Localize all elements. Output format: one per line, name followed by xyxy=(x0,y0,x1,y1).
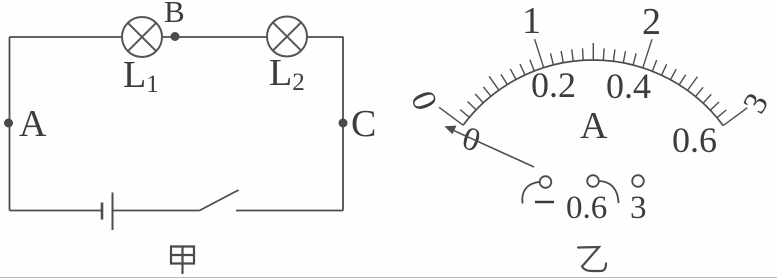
terminal 3 xyxy=(632,175,644,187)
svg-text:3: 3 xyxy=(737,87,776,119)
caption jia (甲) xyxy=(171,247,194,274)
svg-text:A: A xyxy=(580,105,608,147)
terminal negative hook xyxy=(522,182,539,204)
svg-text:1: 1 xyxy=(522,0,541,42)
terminal 0.6 xyxy=(587,175,599,187)
caption yi (乙) xyxy=(578,247,606,271)
terminal 0.6 hook xyxy=(599,181,619,203)
svg-text:0: 0 xyxy=(403,86,444,116)
lamp L1 xyxy=(122,17,162,57)
svg-text:2: 2 xyxy=(642,1,661,43)
ammeter tick marks xyxy=(439,39,747,126)
svg-text:A: A xyxy=(19,103,47,145)
wire right side of loop xyxy=(342,37,344,211)
terminal negative label xyxy=(535,201,554,204)
terminal negative xyxy=(540,176,552,188)
svg-text:3: 3 xyxy=(630,190,647,226)
node B xyxy=(171,32,180,41)
svg-text:B: B xyxy=(164,0,185,29)
svg-text:0: 0 xyxy=(458,120,485,159)
wire bottom left segment xyxy=(10,210,103,212)
switch S1 xyxy=(200,190,239,211)
lamp L2 xyxy=(267,17,307,57)
ammeter scale arc xyxy=(463,60,723,126)
wire top side of loop xyxy=(10,36,344,38)
battery B1 xyxy=(102,193,113,231)
svg-text:0.6: 0.6 xyxy=(566,190,607,226)
svg-text:C: C xyxy=(351,103,376,145)
svg-text:0.6: 0.6 xyxy=(672,120,717,160)
needle pointing to zero xyxy=(450,129,534,167)
node A xyxy=(4,119,13,128)
wire bottom right segment xyxy=(236,210,343,212)
wire bottom middle segment xyxy=(113,210,200,212)
wire left side of loop xyxy=(9,37,11,211)
svg-text:L1: L1 xyxy=(123,54,159,98)
svg-text:L2: L2 xyxy=(269,52,305,96)
svg-text:0.4: 0.4 xyxy=(606,66,651,106)
svg-text:0.2: 0.2 xyxy=(531,65,576,105)
node C xyxy=(339,119,348,128)
